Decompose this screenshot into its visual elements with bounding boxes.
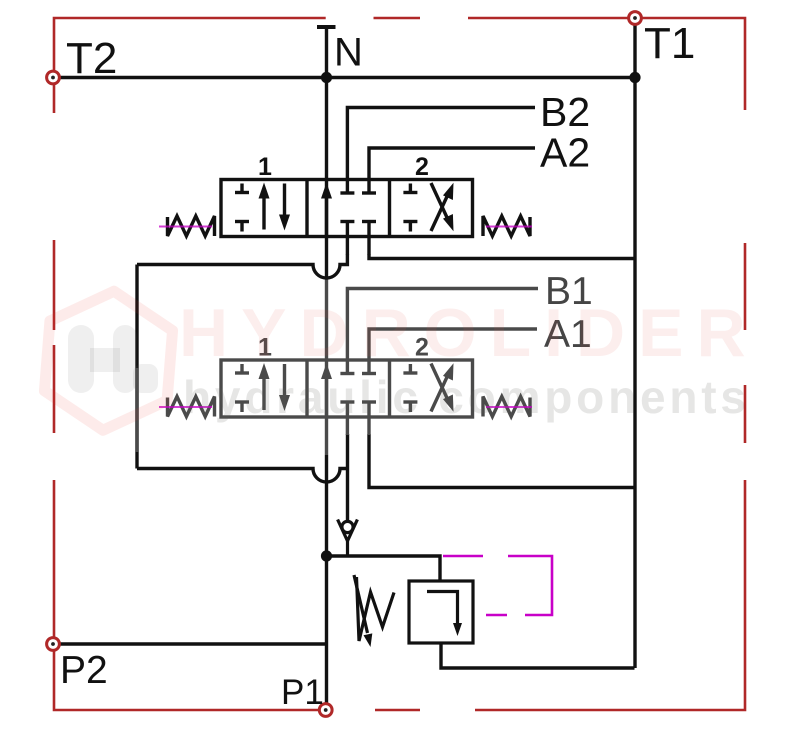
valve V1 centre: blocked B-port bar top bbox=[340, 191, 354, 194]
pilot line: relief remote sense (magenta dashed) bbox=[443, 556, 552, 615]
valve V1 section 0 (centre): neutral up arrow on N gallery bbox=[321, 183, 332, 237]
valve V2 centre: blocked A-port bar bottom bbox=[362, 400, 376, 403]
wire: relief valve return to T1 bbox=[441, 643, 635, 668]
wire: A2 work line bbox=[369, 148, 535, 180]
port N tank cap bbox=[317, 25, 336, 29]
port P2 connection circle bbox=[47, 638, 60, 651]
wire: P2 pump line bbox=[60, 642, 327, 645]
check valve CV1 (ball and seat) bbox=[338, 520, 358, 557]
valve V1 section 1: down-flow arrow bbox=[279, 184, 290, 231]
svg-text:hydraulic components: hydraulic components bbox=[183, 371, 750, 423]
valve V2 section 1: down-flow arrow bbox=[279, 364, 290, 411]
wire: valve V2 tank return to T1 bbox=[369, 434, 635, 488]
valve V2 centre: blocked A-port bar top bbox=[362, 372, 376, 375]
svg-text:P2: P2 bbox=[60, 649, 108, 692]
svg-text:A2: A2 bbox=[540, 130, 590, 176]
valve V2 section 2: blocked port symbol bottom bbox=[403, 402, 417, 412]
wire: N / neutral gallery vertical (upper, black) bbox=[325, 27, 328, 278]
valve V2 centre: blocked B-port bar bottom bbox=[340, 400, 354, 403]
wire: B2 work line bbox=[347, 108, 535, 181]
valve V1 body (3-position envelope) bbox=[221, 180, 473, 237]
valve V2 right return spring bbox=[483, 397, 530, 417]
valve V2 body (3-position envelope) bbox=[221, 360, 473, 417]
valve V1 section 1: up-flow arrow bbox=[259, 183, 270, 230]
wire: V2 feed with hop over N line bbox=[137, 469, 348, 483]
svg-text:HYDROLIDER: HYDROLIDER bbox=[179, 295, 759, 371]
valve V1 section 2: blocked port symbol top bbox=[403, 184, 417, 193]
svg-text:B2: B2 bbox=[540, 89, 590, 135]
valve V2 right spring pilot line (magenta) bbox=[486, 406, 532, 408]
valve V1 top port stems bbox=[347, 179, 369, 192]
wire: V1 carry-over with hop over N line bbox=[137, 254, 347, 278]
svg-text:T1: T1 bbox=[644, 19, 695, 68]
svg-text:P1: P1 bbox=[281, 673, 324, 712]
wire: neutral gallery through valve V2 (gray) bbox=[325, 278, 328, 455]
valve V2 section 2: crossed flow arrows bbox=[431, 363, 454, 411]
valve V2 section 1: blocked port symbol top bbox=[235, 364, 249, 373]
wire: B1 work line (gray) bbox=[347, 289, 538, 362]
watermark hexagon logo bbox=[42, 286, 176, 435]
wire: relief valve feed bbox=[327, 556, 441, 581]
valve V1 section 2: crossed flow arrows bbox=[431, 183, 454, 231]
svg-text:N: N bbox=[334, 31, 363, 75]
port T2 connection circle bbox=[47, 71, 60, 84]
wire: T1 tank riser bbox=[633, 24, 636, 668]
valve V2 left spring pilot line (magenta) bbox=[159, 406, 212, 408]
node: T2 / N junction bbox=[321, 72, 332, 83]
valve V2 bottom port stems bbox=[347, 404, 369, 436]
valve V1 right return spring bbox=[483, 216, 530, 236]
svg-text:T2: T2 bbox=[66, 34, 117, 83]
valve V1 centre: blocked B-port bar bottom bbox=[340, 220, 354, 223]
valve V2 top port stems bbox=[347, 360, 369, 373]
valve V1 section 1: blocked port symbol bottom bbox=[235, 222, 249, 232]
valve V1 centre: blocked A-port bar top bbox=[362, 191, 376, 194]
svg-text:1: 1 bbox=[258, 153, 272, 181]
wire: T2 tank line bbox=[60, 76, 636, 79]
valve V2 section 1: blocked port symbol bottom bbox=[235, 402, 249, 412]
wire: A1 work line (gray) bbox=[369, 329, 537, 361]
valve V1 centre: blocked A-port bar bottom bbox=[362, 220, 376, 223]
valve V2 centre: blocked B-port bar top bbox=[340, 372, 354, 375]
wire: V2 P-port drop to check valve bbox=[346, 434, 349, 522]
valve V2 section 2: blocked port symbol top bbox=[403, 364, 417, 373]
wire: valve V1 tank return to T1 bbox=[369, 254, 635, 259]
valve V2 section 1: up-flow arrow bbox=[259, 363, 270, 410]
relief valve RV1 internal flow arrow bbox=[427, 592, 462, 637]
watermark H monogram bbox=[68, 325, 158, 393]
port T1 connection circle bbox=[629, 12, 642, 25]
node: T2 / T1 junction bbox=[629, 72, 640, 83]
node: P gallery junction bbox=[321, 550, 332, 561]
valve V2 section 0 (centre): neutral up arrow on N gallery bbox=[321, 363, 332, 417]
valve V1 left return spring bbox=[168, 216, 215, 236]
port P1 connection circle bbox=[319, 704, 332, 717]
wire: carry-over left loop down bbox=[135, 265, 138, 469]
valve V1 section 1: blocked port symbol top bbox=[235, 184, 249, 193]
wire: carry-over loop segment at V2 level (gray) bbox=[135, 368, 138, 452]
valve V1 section 2: blocked port symbol bottom bbox=[403, 222, 417, 232]
relief valve RV1 body bbox=[409, 581, 473, 643]
svg-text:2: 2 bbox=[415, 153, 429, 181]
relief valve RV1 adjustable spring bbox=[354, 575, 394, 647]
valve V1 bottom port stems bbox=[347, 223, 369, 255]
valve V1 left spring pilot line (magenta) bbox=[159, 226, 212, 228]
valve V1 right spring pilot line (magenta) bbox=[486, 226, 532, 228]
valve V2 left return spring bbox=[168, 397, 215, 417]
wire: P1 riser (neutral gallery lower, black) bbox=[325, 455, 328, 707]
